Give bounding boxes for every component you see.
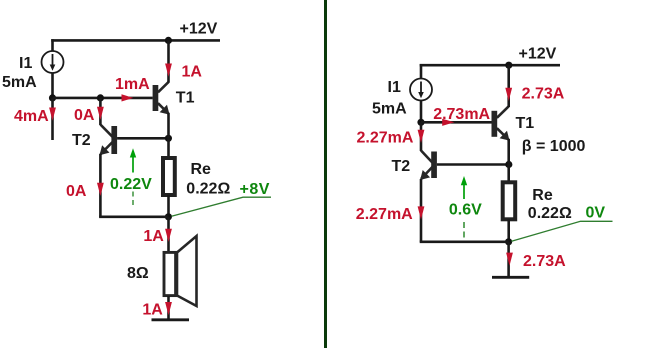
svg-text:Re: Re: [191, 161, 212, 178]
svg-text:+8V: +8V: [239, 181, 269, 198]
wire: rail down to I1: [51, 39, 54, 51]
node: rail junction (right): [505, 62, 512, 69]
svg-text:2.73A: 2.73A: [522, 86, 565, 103]
svg-text:1mA: 1mA: [115, 76, 150, 93]
wire: rail down to I1 (right): [420, 64, 423, 79]
node: rail junction (left): [165, 37, 172, 44]
current arrow 0A upper: [97, 107, 104, 120]
svg-text:2.73A: 2.73A: [523, 253, 566, 270]
resistor Re box (left): [163, 158, 175, 195]
transistor T1 (right): [492, 106, 510, 140]
wire: T2 emitter leg down (right): [420, 179, 423, 242]
wire: junction down to T2 collector (right): [420, 122, 423, 151]
current arrow 2.73A bottom: [506, 253, 513, 266]
wire: I1 to base node: [51, 73, 54, 98]
wire: T2 base to T1-emitter node: [117, 137, 168, 140]
wire: T2 emitter leg down: [99, 154, 102, 217]
wire: I1 to base node (right): [420, 100, 423, 122]
svg-text:0.22V: 0.22V: [110, 176, 152, 193]
svg-text:0A: 0A: [66, 183, 87, 200]
annotation line to +8V: [171, 197, 271, 216]
current source I1 (left): [42, 51, 64, 73]
wire: bottom return wire (right): [420, 241, 509, 244]
wire: T1 collector to rail (right): [507, 65, 510, 107]
ground (left): [151, 318, 189, 321]
separator line: [324, 0, 327, 348]
svg-text:0A: 0A: [74, 107, 95, 124]
current arrow 2.27mA upper: [418, 130, 425, 143]
current arrow 0A lower: [97, 183, 104, 196]
svg-text:1A: 1A: [142, 302, 163, 319]
current arrow 1A top: [165, 63, 172, 76]
svg-text:I1: I1: [388, 79, 401, 96]
svg-text:0V: 0V: [585, 204, 605, 221]
current arrow 2.73A top: [505, 88, 512, 101]
wire: junction to Re: [167, 138, 170, 158]
wire: base wire to T1: [53, 97, 153, 100]
svg-text:0.6V: 0.6V: [449, 201, 482, 218]
wire: +12V top rail (right): [420, 64, 560, 67]
wire: +12V top rail (left): [51, 39, 220, 42]
svg-text:1A: 1A: [143, 228, 164, 245]
current source I1 (right): [410, 79, 432, 101]
annotation line to 0V: [511, 221, 612, 241]
ground (right): [492, 276, 529, 279]
svg-text:5mA: 5mA: [372, 100, 407, 117]
wire: 4mA stub below I1 node: [51, 98, 54, 140]
svg-text:0.22Ω: 0.22Ω: [186, 181, 230, 198]
node: output junction (right): [505, 238, 512, 245]
wire: Re to output node: [167, 195, 170, 217]
wire: T2 base to junction (right): [437, 163, 509, 166]
svg-text:T2: T2: [72, 132, 91, 149]
svg-text:+12V: +12V: [180, 21, 218, 38]
svg-text:1A: 1A: [182, 64, 203, 81]
svg-text:5mA: 5mA: [2, 74, 37, 91]
node: T1 emitter junction (left): [165, 135, 172, 142]
svg-text:4mA: 4mA: [14, 108, 49, 125]
svg-text:β = 1000: β = 1000: [522, 138, 586, 155]
node: base junction (right): [417, 119, 424, 126]
node: I1 / base-wire junction: [49, 94, 56, 101]
transistor T2 (right): [420, 151, 437, 181]
wire: output node to speaker: [167, 217, 170, 252]
svg-text:2.73mA: 2.73mA: [433, 106, 490, 123]
svg-text:T2: T2: [392, 158, 411, 175]
node: base-wire / T2 junction: [97, 94, 104, 101]
wire: Re to output node (right): [507, 219, 510, 242]
wire: T1 collector to rail: [167, 40, 170, 82]
svg-text:Re: Re: [532, 187, 553, 204]
wire: T1 emitter to junction (right): [507, 139, 510, 165]
node: output junction (left): [165, 213, 172, 220]
current arrow 1A bottom: [165, 302, 172, 315]
svg-text:2.27mA: 2.27mA: [357, 130, 414, 147]
wire: speaker to ground: [167, 296, 170, 320]
wire: base wire to T1 (right): [421, 121, 492, 124]
current arrow 2.27mA lower: [418, 206, 425, 219]
resistor Re box (right): [503, 182, 516, 219]
transistor T2 (left): [100, 124, 118, 155]
svg-text:T1: T1: [516, 115, 535, 132]
svg-text:+12V: +12V: [519, 45, 557, 62]
svg-text:8Ω: 8Ω: [127, 265, 149, 282]
node: T1 emitter junction (right): [505, 161, 512, 168]
wire: output node to ground (right): [507, 242, 510, 277]
wire: junction down to T2 collector: [99, 98, 102, 125]
current arrow 1mA: [122, 94, 134, 101]
voltage arrow 0.22V (green): [130, 148, 136, 205]
transistor T1 (left): [153, 82, 170, 115]
voltage arrow 0.6V (green): [461, 176, 467, 238]
speaker 8ohm: [164, 236, 197, 306]
current arrow 2.73mA: [442, 119, 454, 126]
wire: junction to Re (right): [507, 165, 510, 183]
svg-text:0.22Ω: 0.22Ω: [528, 205, 572, 222]
wire: bottom return wire: [99, 215, 168, 218]
svg-text:2.27mA: 2.27mA: [356, 206, 413, 223]
svg-text:I1: I1: [19, 55, 32, 72]
wire: T1 emitter to junction: [167, 113, 170, 138]
svg-text:T1: T1: [176, 89, 195, 106]
current arrow 4mA: [49, 107, 56, 120]
current arrow 1A mid: [165, 229, 172, 242]
